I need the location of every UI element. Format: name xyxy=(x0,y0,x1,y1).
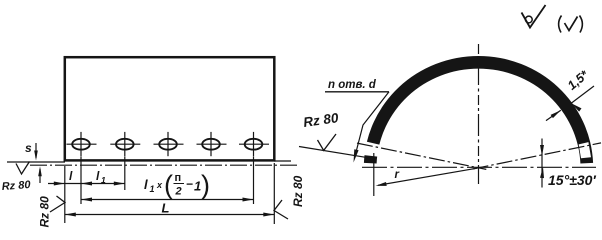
horizontal centerline xyxy=(362,166,596,168)
svg-text:x: x xyxy=(156,180,163,190)
symbol (check) - rest of surfaces xyxy=(559,16,562,33)
plate outline (flat development) xyxy=(65,57,274,160)
hole 1 (ellipse with centerlines) xyxy=(67,132,97,156)
arrowhead row2 left xyxy=(81,198,92,202)
bottom edge extension line left xyxy=(7,161,65,163)
extension line at plate right edge xyxy=(273,163,275,224)
svg-text:): ) xyxy=(201,170,210,200)
extension line at plate left edge xyxy=(64,166,66,223)
arrowhead l1 right xyxy=(114,182,125,186)
extension line at hole 5 xyxy=(253,157,255,205)
leader line for Rz 80 (arc) xyxy=(299,147,371,159)
s dimension lower arrow line xyxy=(39,169,41,183)
underline of n otv. d xyxy=(325,91,389,93)
s dimension upper arrow line xyxy=(35,143,37,158)
hole 2 (ellipse with centerlines) xyxy=(110,132,140,156)
dimension line l (outside) xyxy=(48,183,81,185)
arrowhead row2 right xyxy=(243,198,254,202)
svg-text:Rz 80: Rz 80 xyxy=(291,175,305,207)
arrowhead l1 left xyxy=(81,182,92,186)
arrowhead L right xyxy=(263,213,274,217)
s lower arrowhead (up) xyxy=(38,166,42,176)
surface finish check (arc) xyxy=(318,134,337,150)
svg-text:1: 1 xyxy=(101,175,106,185)
extension line at hole 2 xyxy=(124,157,126,191)
svg-text:п: п xyxy=(175,172,182,184)
svg-text:L: L xyxy=(162,201,170,216)
svg-text:(: ( xyxy=(164,170,173,200)
vertical centerline xyxy=(478,44,480,184)
hole axis centerline right (15 deg) xyxy=(473,143,601,169)
arrowhead r xyxy=(376,182,387,186)
svg-text:Rz 80: Rz 80 xyxy=(38,196,52,228)
arrowhead L left xyxy=(65,213,76,217)
leader from n otv. d to end hole xyxy=(355,92,390,158)
dimension line L xyxy=(65,214,274,216)
half-ring (bent strap) xyxy=(364,56,593,164)
surface finish check symbol (right, on L extension) xyxy=(274,200,288,219)
svg-text:2: 2 xyxy=(175,186,182,198)
angle dimension line xyxy=(541,139,543,188)
hole d at left end (white slot) xyxy=(364,142,380,157)
extension line at hole 1 xyxy=(80,157,82,205)
svg-text:r: r xyxy=(395,169,400,181)
arrowhead angle (down to 15deg line) xyxy=(540,145,544,156)
svg-text:l: l xyxy=(144,177,148,192)
svg-text:s: s xyxy=(25,141,32,155)
bend axis centerline (dash-dot) xyxy=(30,164,298,166)
s upper arrowhead (down) xyxy=(34,151,38,161)
formula label l1*(n/2-1) xyxy=(144,170,210,200)
radius dimension line r xyxy=(378,168,477,185)
hole axis centerline left (15 deg) xyxy=(357,143,486,169)
svg-text:n отв. d: n отв. d xyxy=(328,79,377,91)
arrowhead of n otv. d leader xyxy=(354,149,359,162)
surface finish check symbol (bottom-left) xyxy=(16,162,30,175)
arrowhead 1,5 outer xyxy=(572,103,582,111)
roughness symbol with circle (no material removal) xyxy=(522,5,546,28)
hole 5 (ellipse with centerlines) xyxy=(239,132,269,156)
svg-text:1: 1 xyxy=(150,184,155,194)
1,5 dimension line inner xyxy=(546,110,561,120)
surface finish check symbol (left, on L extension) xyxy=(50,196,65,212)
arrowhead l at left edge xyxy=(54,182,65,186)
dimension line l1 xyxy=(81,183,125,185)
arrowhead angle (up to horizontal line) xyxy=(540,167,544,178)
dimension line l1*(n/2-1) xyxy=(81,199,254,201)
hole 4 (ellipse with centerlines) xyxy=(197,132,227,156)
svg-text:Rz 80: Rz 80 xyxy=(1,179,31,193)
extension line for r xyxy=(373,153,375,196)
1,5 dimension line outer xyxy=(572,86,595,103)
arrowhead 1,5 inner xyxy=(551,110,561,118)
bottom edge extension line right xyxy=(274,160,291,162)
svg-text:−: − xyxy=(186,177,193,191)
hole 3 (ellipse with centerlines) xyxy=(154,132,184,156)
hole d at right end (white slot) xyxy=(579,142,591,158)
svg-text:15°±30′: 15°±30′ xyxy=(548,172,596,188)
